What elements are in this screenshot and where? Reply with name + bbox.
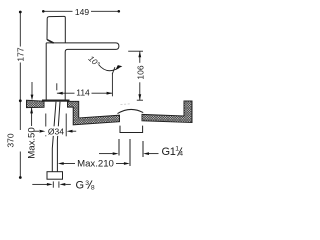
svg-text:177: 177 (16, 47, 26, 61)
svg-text:G: G (76, 179, 85, 191)
svg-text:Max.50: Max.50 (26, 127, 37, 158)
svg-text:149: 149 (75, 7, 89, 17)
svg-text:10°: 10° (86, 54, 102, 69)
svg-text:8: 8 (91, 185, 95, 192)
svg-text:106: 106 (135, 65, 145, 79)
svg-text:Max.210: Max.210 (77, 159, 114, 170)
svg-text:370: 370 (6, 133, 16, 147)
svg-text:114: 114 (76, 87, 90, 97)
svg-text:Ø34: Ø34 (48, 127, 64, 137)
svg-text:G1: G1 (162, 146, 176, 158)
